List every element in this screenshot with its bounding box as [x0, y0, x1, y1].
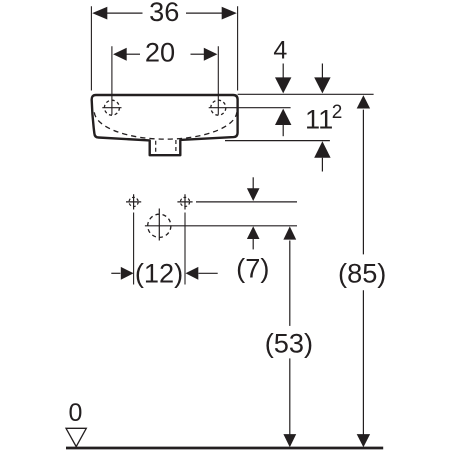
basin inner dashed ellipse — [94, 112, 237, 139]
dimension 11 down arrow — [321, 64, 323, 80]
dimension 20 line and arrows — [126, 53, 140, 55]
dimension 12 arrows — [111, 272, 120, 274]
trap hole circle — [148, 214, 171, 237]
dimension 12 extension lines — [134, 213, 185, 285]
svg-text:4: 4 — [273, 37, 287, 65]
washbasin outline — [92, 95, 238, 155]
dimension 36 line and arrows — [107, 12, 143, 14]
dimension 4 down arrow — [282, 64, 284, 80]
tap hole level line — [209, 107, 291, 109]
dimension 11 up arrow — [314, 141, 330, 157]
fixing hole level line — [196, 201, 297, 203]
dimension 36 extension lines — [91, 6, 237, 90]
svg-text:(7): (7) — [236, 252, 269, 283]
svg-text:0: 0 — [69, 399, 83, 427]
fixing hole right — [180, 197, 189, 206]
trap dashed pipe lines — [156, 140, 176, 155]
rim level line — [238, 93, 374, 95]
dimension 4 up arrow — [275, 109, 291, 125]
svg-text:20: 20 — [145, 36, 175, 67]
svg-text:2: 2 — [332, 102, 343, 123]
dimension 20 extension lines — [112, 46, 218, 115]
trap hole level line — [145, 225, 297, 227]
fixing hole left — [129, 197, 138, 206]
floor datum triangle — [66, 428, 86, 446]
dimension 7 up arrow — [247, 226, 260, 239]
svg-text:36: 36 — [149, 0, 179, 27]
dimension 53 line — [283, 226, 296, 239]
tap hole right — [211, 100, 226, 115]
dimension 7 down arrow — [252, 177, 254, 188]
svg-text:(12): (12) — [135, 257, 183, 288]
tap hole left — [104, 100, 119, 115]
floor line — [66, 447, 383, 450]
svg-text:(85): (85) — [338, 257, 386, 288]
front edge level line — [225, 140, 330, 142]
svg-text:(53): (53) — [265, 328, 313, 359]
svg-text:11: 11 — [305, 104, 333, 135]
dimension 85 line — [357, 95, 370, 108]
